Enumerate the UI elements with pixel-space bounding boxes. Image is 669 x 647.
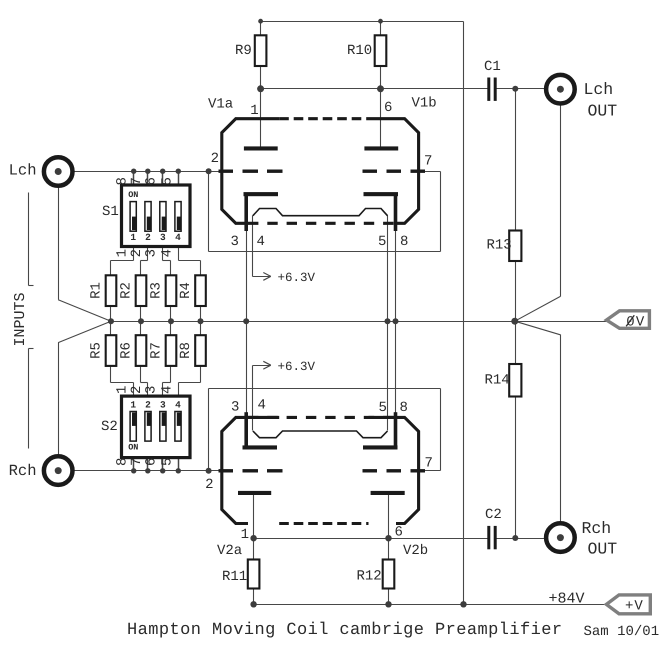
svg-text:C1: C1: [484, 59, 501, 75]
svg-text:R3: R3: [149, 282, 165, 299]
wire: V1 grid tie box right side: [440, 172, 442, 252]
svg-text:2: 2: [205, 477, 213, 493]
wire: V2a anode pin 1 lead: [253, 493, 255, 539]
svg-text:ON: ON: [128, 443, 138, 453]
svg-text:V1b: V1b: [412, 96, 437, 112]
junction dots: 0V bus: [108, 318, 518, 325]
svg-text:8: 8: [400, 400, 408, 416]
connector Rch OUT: [546, 519, 617, 559]
wire: V1a anode pin 1 lead: [260, 89, 262, 149]
connector Rch input: [9, 456, 73, 485]
svg-text:2: 2: [129, 386, 145, 394]
pin label 6 (V1b): [384, 100, 392, 116]
pin label 3 (V1a): [231, 234, 239, 250]
label V1b: [412, 96, 437, 112]
tube V1b grid (pin 7), dashed: [363, 169, 426, 172]
wire: R12 leads: [388, 539, 390, 605]
wire: V1 heater pin 4 lead to +6.3V arrow: [252, 216, 254, 277]
wire: Lch input down lead and diagonal to 0V bus: [58, 188, 111, 322]
resistor R9: [235, 35, 266, 66]
tube V1a cathode (pin 3): [244, 192, 279, 231]
wire: R9 leads: [260, 22, 262, 89]
svg-text:OUT: OUT: [588, 102, 618, 121]
label V1a: [208, 97, 233, 113]
svg-text:+6.3V: +6.3V: [278, 271, 316, 285]
wire: V2 grid tie box right side: [440, 389, 442, 471]
svg-text:5: 5: [379, 400, 387, 416]
svg-text:4: 4: [175, 232, 181, 243]
pin label 8 (V1b): [400, 234, 408, 250]
svg-text:2: 2: [145, 232, 151, 243]
wire: top supply rail from R9/R10 tops to +V column: [261, 21, 464, 23]
tube V2b grid (pin 7), dashed: [363, 469, 426, 472]
svg-text:Rch: Rch: [582, 519, 612, 538]
resistor R14: [485, 364, 522, 397]
svg-text:2: 2: [211, 151, 219, 167]
svg-text:R12: R12: [357, 569, 382, 585]
svg-text:4: 4: [159, 386, 175, 394]
pin label 7 (V1b): [424, 154, 432, 170]
svg-text:5: 5: [378, 234, 386, 250]
svg-text:6: 6: [384, 100, 392, 116]
S1 pin numbers 1 2 3 4 (bottom, grey): [115, 249, 176, 257]
svg-text:R9: R9: [235, 43, 252, 59]
pin label 2 (V1a): [211, 151, 219, 167]
wire: R10 leads: [380, 22, 382, 89]
resistor R13: [487, 231, 522, 262]
connector Lch OUT: [546, 75, 617, 121]
svg-text:2: 2: [145, 400, 151, 411]
svg-text:3: 3: [144, 386, 160, 394]
svg-text:3: 3: [231, 400, 239, 416]
pin label 1 (V1a): [250, 103, 258, 119]
pin label 6 (V2b): [395, 525, 403, 541]
wire: R1-R4 bottom leads to 0V bus: [111, 307, 201, 322]
resistor R12: [357, 560, 395, 589]
wire: V2 grid tie box top: [209, 388, 441, 390]
node 0V bus: [111, 321, 607, 323]
tube V1b anode (pin 6): [364, 146, 398, 150]
svg-text:+6.3V: +6.3V: [278, 360, 316, 374]
resistor R6: [119, 335, 147, 366]
tube V2 heater filament (pins 4-5): [253, 431, 388, 438]
wire: R11 leads: [253, 539, 255, 605]
svg-text:V1a: V1a: [208, 97, 233, 113]
svg-text:1: 1: [241, 527, 249, 543]
capacitor C2: [485, 507, 502, 549]
node 0V tag: [607, 311, 650, 331]
svg-text:ON: ON: [128, 190, 138, 200]
label +84V: [549, 591, 585, 608]
wire: V1 pin 7 stub: [419, 171, 441, 173]
wire: R5-R8 bottom jogs to S2 top pins 1-4: [111, 366, 201, 397]
pin label 5 (V2 heater): [379, 400, 387, 416]
svg-text:Sam 10/01: Sam 10/01: [584, 624, 660, 640]
node +6.3V arrow (V1 heater): [253, 271, 316, 285]
tube V2a grid (pin 2), dashed: [219, 469, 283, 472]
pin label 7 (V2b): [425, 456, 433, 472]
svg-text:5: 5: [159, 177, 175, 185]
wire: S1 bottom pins 1-4 jogs to R1-R4 tops: [111, 248, 201, 276]
S2 pin numbers 1 2 3 4 (top, grey): [115, 386, 176, 394]
tube V1 envelope (dual triode V1a/V1b): [222, 119, 419, 224]
wire: V1a cathode pin 3 to 0V bus: [246, 231, 248, 322]
pin label 4 (V1 heater): [257, 234, 265, 250]
resistor R2: [119, 275, 147, 306]
svg-text:3: 3: [160, 400, 166, 411]
wire: Rch OUT shell ground up to 0V junction: [515, 321, 561, 521]
tube V2b cathode (pin 8): [363, 412, 398, 449]
wire: Lch OUT shell ground down to 0V junction: [515, 105, 561, 322]
wire: S1 top pin stubs 8,7,6,5: [134, 172, 179, 186]
node +V tag: [606, 595, 650, 615]
resistor R5: [89, 335, 117, 366]
wire: V1 grid tie box left side: [208, 172, 210, 252]
wire: C1 to Lch OUT centre: [497, 88, 561, 90]
wire: V2 grid tie box left side: [208, 389, 210, 471]
svg-text:OUT: OUT: [588, 540, 618, 559]
resistor R1: [89, 275, 117, 306]
tube V2a anode (pin 1): [238, 491, 271, 495]
tube V2b anode (pin 6): [371, 491, 405, 495]
svg-text:7: 7: [129, 458, 145, 466]
tube V1a grid (pin 2), dashed: [219, 169, 283, 172]
svg-text:8: 8: [400, 234, 408, 250]
wire: V1 heater pin 5 to 0V bus: [387, 216, 389, 322]
svg-text:R10: R10: [347, 43, 372, 59]
svg-text:3: 3: [231, 234, 239, 250]
tube V2a cathode (pin 3): [243, 412, 278, 449]
svg-text:R1: R1: [89, 282, 105, 299]
pin label 1 (V2a): [241, 527, 249, 543]
svg-text:7: 7: [129, 177, 145, 185]
svg-text:R11: R11: [222, 569, 247, 585]
svg-text:R14: R14: [485, 373, 510, 389]
label V2b: [403, 543, 428, 559]
wire: 0V bus to V2a cathode pin 3: [246, 322, 248, 413]
S2 pin numbers 8 7 6 5 (bottom, grey): [115, 458, 176, 466]
wire: V2b anode pin 6 lead: [388, 493, 390, 539]
pin label 2 (V2a): [205, 477, 213, 493]
svg-text:1: 1: [130, 232, 136, 243]
svg-text:R4: R4: [178, 282, 194, 299]
svg-text:R2: R2: [119, 282, 135, 299]
svg-text:S2: S2: [101, 419, 118, 435]
junction dots: V1 anode rail: [257, 85, 518, 92]
svg-text:R13: R13: [487, 238, 512, 254]
svg-text:1: 1: [130, 400, 136, 411]
junction dots: +84V rail: [250, 601, 466, 607]
wire: C2 to Rch OUT centre: [497, 538, 561, 540]
svg-text:Hampton Moving Coil cambrige P: Hampton Moving Coil cambrige Preamplifie…: [127, 621, 563, 640]
svg-text:6: 6: [144, 458, 160, 466]
svg-text:R5: R5: [89, 342, 105, 359]
wire: V1 grid tie box bottom: [209, 251, 441, 253]
svg-text:4: 4: [159, 249, 175, 257]
wire: +6.3V arrow lead down to V2 heater pin 4: [252, 366, 254, 431]
wire: 0V bus to V2b cathode pin 8: [395, 322, 397, 413]
resistor R8: [178, 335, 206, 366]
op-amp none / tube V1a anode (pin 1): [244, 146, 278, 150]
pin label 8 (V2b): [400, 400, 408, 416]
svg-text:R8: R8: [178, 342, 194, 359]
svg-text:1: 1: [250, 103, 258, 119]
label V2a: [217, 543, 242, 559]
svg-text:Lch: Lch: [9, 162, 37, 180]
S1 pin numbers 8 7 6 5 (top, grey): [115, 177, 176, 185]
svg-text:5: 5: [159, 458, 175, 466]
junction dots: Rch input row (S2 pins and grid node): [131, 468, 212, 474]
svg-text:Rch: Rch: [9, 462, 37, 480]
resistor R4: [178, 275, 206, 306]
svg-text:7: 7: [424, 154, 432, 170]
wire: R5-R8 top leads from 0V bus: [111, 322, 201, 336]
wire: V2 pin 7 stub: [419, 470, 441, 472]
wire: +V vertical line down right side: [463, 22, 465, 605]
svg-text:3: 3: [160, 232, 166, 243]
capacitor C1: [484, 59, 501, 101]
wire: R14 leads: [515, 322, 517, 539]
svg-text:S1: S1: [102, 204, 119, 220]
svg-text:R7: R7: [149, 342, 165, 359]
pin label 5 (V1 heater): [378, 234, 386, 250]
connector Lch input: [9, 157, 73, 186]
svg-text:6: 6: [395, 525, 403, 541]
resistor R11: [222, 560, 259, 589]
wire: R13 leads: [515, 89, 517, 322]
pin label 3 (V2a): [231, 400, 239, 416]
label author/date: [584, 624, 660, 640]
wire: V1b anode pin 6 lead: [380, 89, 382, 149]
junction dots: Lch input row (S1 pins and grid node): [131, 168, 212, 174]
node +6.3V arrow (V2 heater): [253, 360, 316, 374]
resistor R7: [149, 335, 177, 366]
wire: V1 anode rail (pins 1,6) to C1: [261, 88, 488, 90]
svg-text:INPUTS: INPUTS: [12, 292, 29, 346]
tube V1b cathode (pin 8): [364, 192, 399, 231]
svg-text:+V: +V: [625, 599, 644, 615]
junction dots: top rail: [258, 19, 383, 24]
wire: S2 bottom pin stubs 8,7,6,5: [134, 457, 179, 471]
label INPUTS (bracket): [12, 193, 34, 449]
svg-text:V2a: V2a: [217, 543, 242, 559]
svg-text:+84V: +84V: [549, 591, 585, 608]
svg-text:C2: C2: [485, 507, 502, 523]
tube V1 heater filament (pins 4-5): [253, 209, 388, 216]
wire: V2 anode rail (pins 1,6) to C2: [254, 538, 488, 540]
svg-text:Lch: Lch: [584, 80, 614, 99]
svg-text:4: 4: [257, 234, 265, 250]
svg-text:6: 6: [144, 177, 160, 185]
svg-text:3: 3: [144, 249, 160, 257]
wire: Rch input line to grid pin 2 of V2a: [59, 470, 222, 472]
svg-text:4: 4: [175, 400, 181, 411]
wire: Rch input up lead and diagonal to 0V bus: [58, 321, 111, 454]
wire: +84V supply rail: [254, 604, 607, 606]
junction dots: V2 anode rail: [250, 535, 518, 541]
resistor R3: [149, 275, 177, 306]
label title: [127, 621, 563, 640]
svg-text:2: 2: [129, 249, 145, 257]
svg-text:V2b: V2b: [403, 543, 428, 559]
resistor R10: [347, 35, 386, 66]
switch S1 (4x DIP): [102, 185, 190, 247]
svg-text:4: 4: [258, 398, 266, 414]
wire: Lch input line to grid pin 2 of V1a: [59, 171, 222, 173]
wire: V1b cathode pin 8 to 0V bus: [395, 231, 397, 322]
pin label 4 (V2 heater): [258, 398, 266, 414]
tube V2 envelope (dual triode V2a/V2b): [222, 417, 419, 523]
svg-text:R6: R6: [119, 342, 135, 359]
switch S2 (4x DIP): [101, 396, 190, 458]
wire: 0V bus to V2 heater pin 5: [387, 322, 389, 431]
svg-text:7: 7: [425, 456, 433, 472]
